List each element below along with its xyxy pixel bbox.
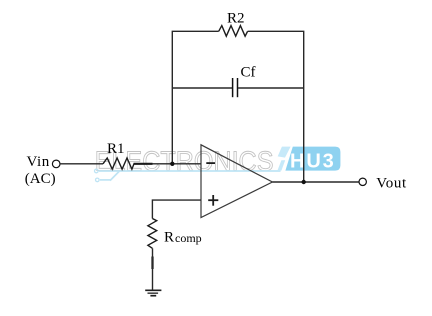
resistor Rcomp	[148, 219, 157, 249]
wire Cf right	[238, 87, 304, 89]
terminal Vout	[359, 178, 366, 185]
svg-text:(AC): (AC)	[25, 171, 56, 187]
svg-text:comp: comp	[175, 231, 202, 245]
wire R1 heavy segment	[134, 163, 153, 165]
svg-text:R: R	[164, 230, 174, 246]
wire output	[272, 181, 359, 183]
svg-text:R1: R1	[107, 141, 125, 157]
watermark logo	[95, 146, 341, 182]
capacitor Cf	[233, 78, 238, 97]
ground	[145, 290, 161, 295]
wire Vin to R1	[60, 163, 103, 165]
wire R1 to inverting input	[134, 163, 201, 165]
resistor R2	[219, 26, 248, 37]
junction node inverting input	[170, 162, 174, 166]
wire Cf left	[172, 87, 232, 89]
wire top-right (R2 right lead + right feedback)	[248, 31, 304, 182]
junction node output	[302, 180, 306, 184]
wire top-left (R2 left lead + left feedback)	[172, 31, 218, 164]
svg-text:R2: R2	[227, 11, 245, 27]
svg-text:Vout: Vout	[376, 175, 407, 191]
op-amp U1	[201, 145, 272, 218]
svg-text:Cf: Cf	[241, 64, 256, 80]
wire Rcomp to ground	[152, 248, 154, 290]
resistor R1	[103, 158, 134, 169]
svg-text:HU3: HU3	[290, 151, 336, 173]
wire heavy segment	[151, 257, 153, 270]
svg-text:Vin: Vin	[27, 154, 50, 170]
label Rcomp	[164, 230, 202, 246]
terminal Vin	[52, 160, 60, 168]
wire non-inverting input	[152, 200, 201, 218]
